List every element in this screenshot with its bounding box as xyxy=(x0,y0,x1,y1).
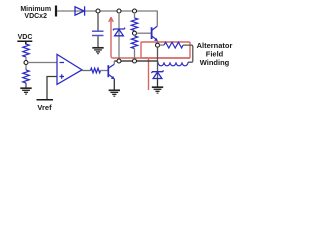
wire: op-amp non-inverting input to Vref xyxy=(47,77,57,100)
node junction VDC divider mid xyxy=(24,61,28,65)
resistor VDC divider upper xyxy=(23,44,29,57)
op-amp U1 xyxy=(57,54,82,84)
wire: divider top lead xyxy=(134,13,136,18)
diode D1 xyxy=(75,6,85,15)
wire: winding left vertical from emitter node down to flyback diode xyxy=(158,47,159,78)
resistor divider upper xyxy=(131,18,137,31)
node junction bus at divider xyxy=(133,59,137,63)
ground (flyback diode) xyxy=(152,87,163,93)
wire: field winding right bracket xyxy=(183,45,193,62)
wire: to field resistor xyxy=(160,44,165,46)
red highlight path: arrow up xyxy=(109,17,190,90)
inductor field winding L xyxy=(158,62,188,66)
terminal Vref xyxy=(37,99,54,101)
wire: top rail from input terminal to Q2 collector corner xyxy=(56,11,157,26)
red wire down to ground xyxy=(148,58,150,90)
svg-text:Minimum: Minimum xyxy=(20,6,51,13)
node junction on rail at divider xyxy=(133,9,137,13)
capacitor C1 xyxy=(92,31,104,35)
node junction bus at zener xyxy=(117,59,121,63)
svg-text:Winding: Winding xyxy=(200,58,230,67)
resistor Q1 base xyxy=(91,68,101,73)
resistor VDC divider lower xyxy=(23,70,29,83)
node divider mid junction xyxy=(133,31,137,35)
terminal VDC xyxy=(17,41,32,44)
node junction on rail at capacitor xyxy=(96,9,100,13)
wire: op-amp output xyxy=(82,70,91,72)
wire: capacitor top lead xyxy=(97,13,99,31)
wire: flyback diode bottom lead xyxy=(157,79,159,88)
svg-text:VDC: VDC xyxy=(18,34,33,41)
wire: divider to ground xyxy=(25,83,27,88)
wire: to mid node xyxy=(25,57,27,70)
ground (capacitor) xyxy=(92,48,103,54)
ground (VDC divider) xyxy=(20,88,31,94)
node junction on rail at zener xyxy=(117,9,121,13)
terminal Minimum VDCx2 xyxy=(55,6,57,17)
wire: capacitor bottom lead xyxy=(97,36,99,48)
wire: zener top lead xyxy=(118,13,120,59)
resistor divider lower xyxy=(131,36,137,49)
transistor Q2 xyxy=(152,26,158,41)
red highlight box around field winding xyxy=(141,42,190,58)
node junction Q2 emitter / field winding xyxy=(156,43,160,47)
transistor Q1 xyxy=(108,64,114,79)
svg-text:VDCx2: VDCx2 xyxy=(24,13,47,20)
flyback zener D3 (cathode up) xyxy=(151,70,163,78)
zener diode D2 (cathode up) xyxy=(113,28,125,36)
ground (Q1 emitter) xyxy=(109,90,120,96)
resistor field winding R xyxy=(164,42,183,48)
svg-text:Vref: Vref xyxy=(37,103,52,112)
wire: Q1 collector lead xyxy=(113,61,115,64)
wire: bottom bus xyxy=(114,60,157,62)
wire: Q2 emitter lead xyxy=(157,41,159,44)
wire: Q1 base wire xyxy=(101,70,108,72)
wire: op-amp inverting input from divider xyxy=(28,62,57,64)
wire: Q2 base wire xyxy=(137,32,152,34)
wire: Q1 emitter lead xyxy=(113,79,115,91)
wire: divider bottom lead xyxy=(134,35,136,59)
